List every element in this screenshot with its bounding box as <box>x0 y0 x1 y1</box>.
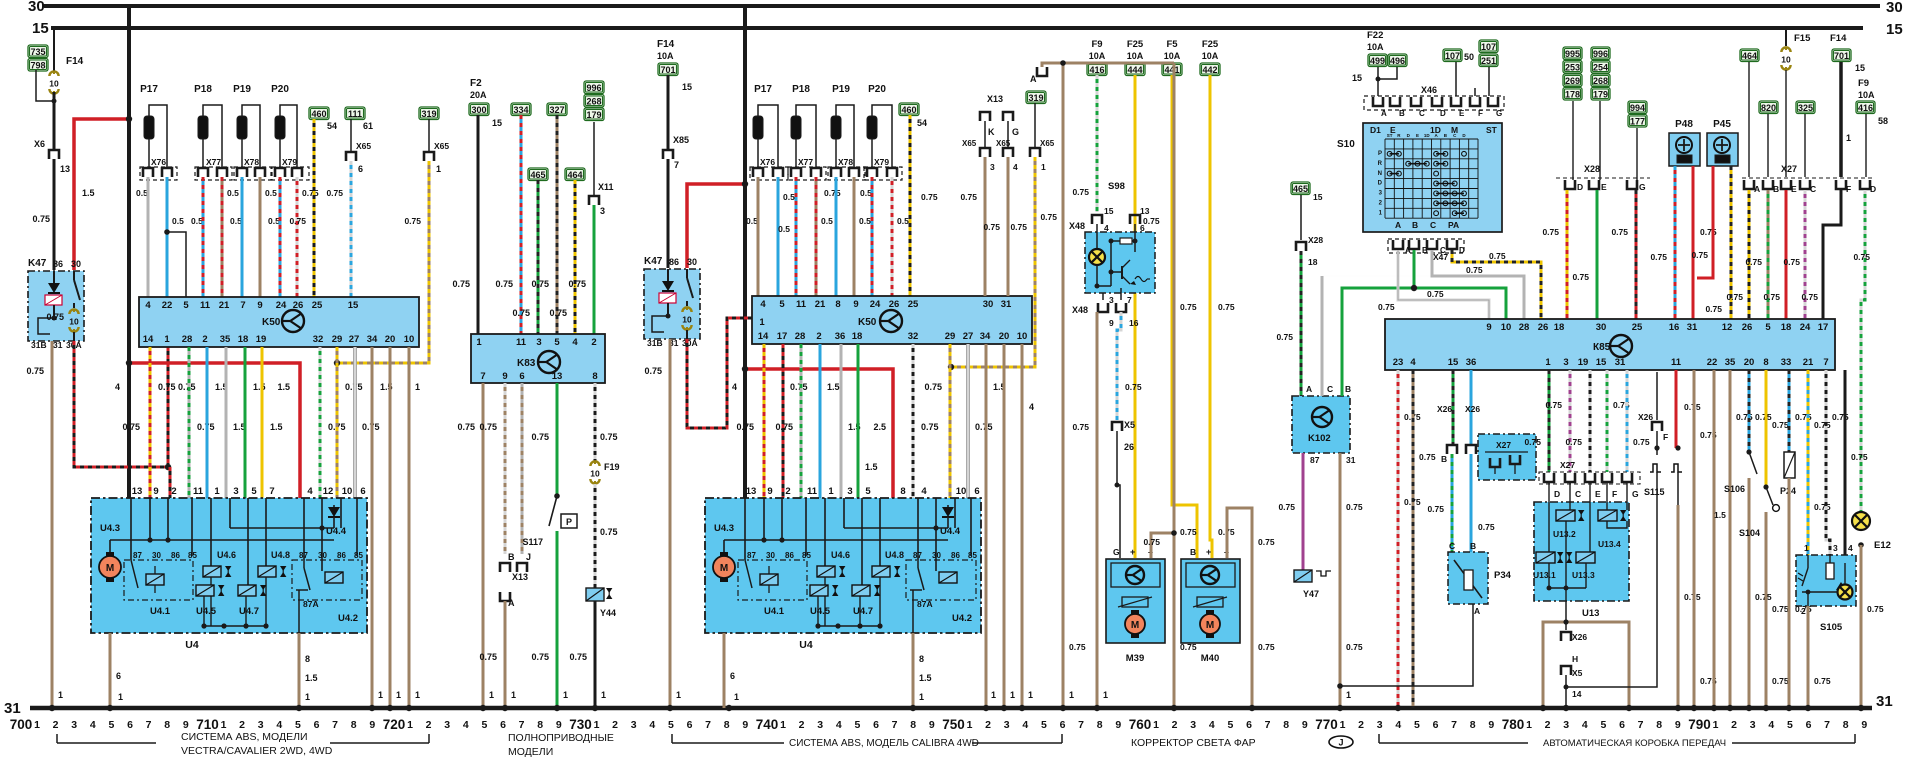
svg-text:1: 1 <box>436 164 441 174</box>
svg-text:4: 4 <box>145 300 151 311</box>
wire K50-2 pin14 red/yellow to U4-2 pin9 <box>763 344 766 498</box>
svg-text:U4: U4 <box>185 639 199 651</box>
svg-text:M: M <box>106 563 114 574</box>
green label 460 (Calibra) <box>899 103 919 116</box>
svg-text:M40: M40 <box>1201 653 1219 664</box>
svg-text:D: D <box>1378 181 1383 187</box>
svg-text:17: 17 <box>777 331 788 342</box>
svg-text:1.5: 1.5 <box>865 462 878 472</box>
svg-text:21: 21 <box>219 300 230 311</box>
svg-text:86: 86 <box>171 551 180 560</box>
wire K50 pin32 green/white to U4 pin12 <box>319 347 322 498</box>
svg-text:1: 1 <box>164 334 170 345</box>
svg-text:464: 464 <box>1742 51 1757 61</box>
svg-text:2: 2 <box>202 334 207 345</box>
svg-text:4: 4 <box>115 382 120 392</box>
svg-text:10: 10 <box>1501 322 1512 333</box>
svg-text:1: 1 <box>214 486 220 497</box>
svg-text:7: 7 <box>146 719 152 731</box>
svg-text:31: 31 <box>1001 299 1012 310</box>
wire K85 pin15b green/white to X27 F <box>1606 370 1609 472</box>
svg-text:H: H <box>1572 654 1578 664</box>
wire 701 to X85 <box>667 75 670 150</box>
svg-text:1: 1 <box>305 692 310 702</box>
svg-text:441: 441 <box>1164 65 1179 75</box>
svg-text:M39: M39 <box>1126 653 1144 664</box>
U4 bottom bus <box>818 625 880 627</box>
wire 319 to X65 <box>1034 103 1036 148</box>
svg-text:18: 18 <box>852 331 863 342</box>
green labels 996 268 179 <box>584 81 604 94</box>
green labels 735 798 <box>28 45 48 58</box>
svg-text:18: 18 <box>1781 322 1792 333</box>
svg-text:C: C <box>1327 384 1333 394</box>
svg-text:18: 18 <box>238 334 249 345</box>
svg-text:9: 9 <box>1115 719 1121 731</box>
svg-text:9: 9 <box>1486 322 1491 333</box>
svg-text:0.75: 0.75 <box>122 422 140 432</box>
wire X78 blue to K50 pin7 <box>241 177 244 297</box>
wire X27 F black to K85 pin17 <box>1823 190 1841 319</box>
wire 465 green/black to K83 pin3 <box>537 180 540 334</box>
section bracket ABS Calibra <box>671 734 673 743</box>
svg-text:E: E <box>1416 133 1419 138</box>
svg-text:0.75: 0.75 <box>1276 332 1293 342</box>
svg-text:700: 700 <box>10 717 33 732</box>
svg-text:1: 1 <box>1153 719 1159 731</box>
svg-text:760: 760 <box>1129 717 1152 732</box>
svg-text:1: 1 <box>780 719 786 731</box>
svg-text:25: 25 <box>908 299 919 310</box>
wire X79 red/white to K50 pin26 <box>296 177 299 297</box>
svg-text:6: 6 <box>360 486 365 497</box>
svg-text:87: 87 <box>1310 455 1320 465</box>
svg-text:2: 2 <box>239 719 245 731</box>
svg-text:7: 7 <box>705 719 711 731</box>
section bracket ABS Vectra <box>56 734 58 743</box>
svg-text:780: 780 <box>1502 717 1525 732</box>
svg-text:K83: K83 <box>517 358 536 369</box>
svg-text:F25: F25 <box>1127 39 1144 50</box>
svg-text:3: 3 <box>1563 357 1568 368</box>
svg-text:254: 254 <box>1593 63 1608 73</box>
wire K102 87 violet to Y47 <box>1302 453 1305 570</box>
svg-text:1.5: 1.5 <box>1714 510 1726 520</box>
svg-text:0.75: 0.75 <box>1489 251 1506 261</box>
svg-text:P34: P34 <box>1494 570 1512 581</box>
relay K83 <box>471 334 605 383</box>
svg-text:G: G <box>1639 182 1646 192</box>
svg-text:8: 8 <box>351 719 357 731</box>
svg-text:X65: X65 <box>1040 139 1055 148</box>
svg-text:9: 9 <box>767 486 772 497</box>
svg-text:E: E <box>1791 184 1797 194</box>
svg-text:13: 13 <box>746 486 757 497</box>
valve relay U4.5 <box>810 585 828 596</box>
control unit K85 <box>1385 319 1835 370</box>
svg-text:8: 8 <box>305 654 310 664</box>
wire 334 blue/red to K83 pin11 <box>520 115 523 334</box>
svg-text:0.75: 0.75 <box>1705 304 1722 314</box>
wire feed from 30 to U4 pin13 (left) <box>127 6 131 498</box>
wire K47 31B to ground 31 <box>51 341 54 708</box>
svg-text:2: 2 <box>426 719 432 731</box>
svg-text:1: 1 <box>828 486 834 497</box>
svg-text:P20: P20 <box>868 84 886 95</box>
svg-text:F15: F15 <box>1794 33 1811 44</box>
wire K50 pin18 green to U4 pin5 <box>244 347 247 498</box>
svg-text:31B: 31B <box>31 340 47 350</box>
svg-text:1.5: 1.5 <box>82 188 95 198</box>
green label 334 <box>511 103 531 116</box>
svg-text:0.75: 0.75 <box>1755 412 1772 422</box>
svg-text:9: 9 <box>556 719 562 731</box>
svg-text:1: 1 <box>919 692 924 702</box>
svg-text:+: + <box>1206 547 1211 557</box>
svg-text:0.75: 0.75 <box>404 216 421 226</box>
svg-text:8: 8 <box>910 719 916 731</box>
wire K50-2 pin27 white to U4-2 pin6 <box>967 344 970 498</box>
wire S10 A white to K85 pin9 <box>1398 250 1489 319</box>
svg-text:4: 4 <box>1768 719 1774 731</box>
svg-text:0.75: 0.75 <box>1478 522 1495 532</box>
svg-text:15: 15 <box>1448 357 1459 368</box>
svg-text:X5: X5 <box>1124 420 1135 430</box>
wire X28 D red/yellow to K85 <box>1566 190 1569 319</box>
svg-text:K102: K102 <box>1308 433 1331 444</box>
svg-text:X11: X11 <box>598 182 614 192</box>
svg-text:U4.3: U4.3 <box>714 523 734 534</box>
green label 107 50 <box>1443 49 1462 62</box>
svg-text:5: 5 <box>1227 719 1233 731</box>
svg-text:P: P <box>1378 151 1382 157</box>
wire K50-2 pin2 blue to U4-2 pin1 <box>819 344 822 498</box>
junction box X27 small <box>1478 434 1536 480</box>
green label 701 <box>658 63 678 76</box>
svg-text:1: 1 <box>118 692 123 702</box>
svg-text:31: 31 <box>1687 322 1698 333</box>
svg-text:16: 16 <box>1129 318 1139 328</box>
svg-text:7: 7 <box>1451 719 1457 731</box>
svg-text:0.75: 0.75 <box>921 192 938 202</box>
svg-text:1: 1 <box>1041 162 1046 172</box>
svg-text:9: 9 <box>1109 318 1114 328</box>
svg-text:0.75: 0.75 <box>158 382 176 392</box>
svg-text:МОДЕЛИ: МОДЕЛИ <box>508 746 553 758</box>
svg-text:0.75: 0.75 <box>1143 216 1160 226</box>
svg-text:1.5: 1.5 <box>277 382 290 392</box>
wire K85 pin1 green/black to X27 D <box>1548 370 1551 472</box>
relay U13.2 <box>1556 510 1575 521</box>
wire K50-2 pin36 grey to U4-2 pin3 <box>840 344 843 498</box>
wire S10 D yellow/black to K85 pin26 <box>1452 250 1541 319</box>
svg-text:U13.4: U13.4 <box>1598 539 1621 549</box>
svg-text:15: 15 <box>32 20 49 37</box>
svg-text:X46: X46 <box>1421 85 1437 95</box>
svg-text:17: 17 <box>1818 322 1829 333</box>
svg-text:X27: X27 <box>1496 440 1511 450</box>
ABS hydraulic unit U4 box <box>91 498 367 633</box>
bus line 30 (top) <box>44 4 1880 8</box>
svg-text:8: 8 <box>537 719 543 731</box>
svg-text:3: 3 <box>71 719 77 731</box>
svg-text:4: 4 <box>1848 543 1853 553</box>
wire X28 G red/black to K85 pin25 <box>1635 190 1638 319</box>
wire S117 to 31 <box>556 531 559 708</box>
wire X6 to K47 pin86 <box>53 159 56 270</box>
svg-text:1.5: 1.5 <box>827 382 840 392</box>
svg-text:6: 6 <box>519 371 524 382</box>
svg-text:X26: X26 <box>1437 404 1452 414</box>
svg-text:7: 7 <box>1265 719 1271 731</box>
wire X79 blue/red to K50 pin24 <box>279 177 282 297</box>
svg-text:9: 9 <box>257 300 262 311</box>
svg-text:0.75: 0.75 <box>1611 227 1628 237</box>
valve Y44 <box>586 588 604 601</box>
wire 798 to fuse output <box>36 70 52 101</box>
svg-text:D: D <box>1440 109 1446 118</box>
svg-text:6: 6 <box>974 486 979 497</box>
svg-text:1: 1 <box>601 690 606 700</box>
svg-text:319: 319 <box>1028 93 1043 103</box>
svg-text:0.75: 0.75 <box>1072 187 1089 197</box>
wire X65 blue/white to K50 pin15 <box>350 161 353 297</box>
svg-text:1: 1 <box>1010 690 1015 700</box>
svg-text:D: D <box>1870 184 1876 194</box>
svg-text:G: G <box>1632 489 1639 499</box>
valve relay U4.7 <box>238 585 256 596</box>
svg-text:15: 15 <box>682 82 692 92</box>
svg-text:U13.3: U13.3 <box>1572 570 1595 580</box>
svg-text:0.75: 0.75 <box>495 279 513 289</box>
svg-text:416: 416 <box>1858 103 1873 113</box>
svg-text:6: 6 <box>1246 719 1252 731</box>
svg-text:416: 416 <box>1089 65 1104 75</box>
U4 bottom bus <box>204 625 266 627</box>
svg-text:0.75: 0.75 <box>1466 265 1483 275</box>
svg-text:8: 8 <box>1097 719 1103 731</box>
svg-text:0.75: 0.75 <box>1040 212 1057 222</box>
svg-text:A: A <box>1381 109 1387 118</box>
svg-text:E: E <box>1459 109 1465 118</box>
svg-text:P18: P18 <box>194 84 212 95</box>
svg-text:5: 5 <box>251 486 257 497</box>
valve relay U4.5 <box>196 585 214 596</box>
svg-text:5: 5 <box>295 719 301 731</box>
svg-text:32: 32 <box>908 331 919 342</box>
svg-text:7: 7 <box>1078 719 1084 731</box>
svg-text:0.75: 0.75 <box>568 279 586 289</box>
svg-text:10A: 10A <box>1164 51 1181 61</box>
svg-text:19: 19 <box>256 334 267 345</box>
svg-text:X48: X48 <box>1072 305 1088 315</box>
svg-text:2: 2 <box>1801 606 1806 616</box>
svg-text:319: 319 <box>421 109 436 119</box>
wire X77 blue/red to K50 pin11 <box>202 177 205 297</box>
svg-text:1: 1 <box>378 690 383 700</box>
svg-text:31: 31 <box>1615 357 1626 368</box>
svg-text:8: 8 <box>592 371 597 382</box>
svg-text:1: 1 <box>594 719 600 731</box>
wire K85 pin3 violet/white to X27 C <box>1569 370 1572 472</box>
svg-text:K47: K47 <box>28 258 47 269</box>
lamp E12 <box>1852 512 1870 530</box>
svg-text:8: 8 <box>1656 719 1662 731</box>
svg-text:2: 2 <box>816 331 821 342</box>
svg-text:F19: F19 <box>604 462 620 472</box>
svg-text:86: 86 <box>53 259 63 269</box>
svg-text:U4.5: U4.5 <box>810 606 831 617</box>
svg-text:P45: P45 <box>1713 119 1731 130</box>
svg-text:B: B <box>508 552 515 562</box>
wire U13 bottom to X26 H <box>1565 601 1567 630</box>
wire F9 green/white to X48 <box>1096 75 1099 212</box>
wire brown to K50-2 pin4 <box>757 177 760 296</box>
svg-text:107: 107 <box>1481 42 1496 52</box>
svg-text:798: 798 <box>30 61 45 71</box>
svg-text:0.75: 0.75 <box>924 382 942 392</box>
svg-text:2: 2 <box>799 719 805 731</box>
switch S115 double <box>1650 464 1661 472</box>
wire K50-2 pin34 brown to 31 <box>985 344 988 708</box>
svg-text:701: 701 <box>660 65 675 75</box>
svg-text:0.75: 0.75 <box>1524 437 1541 447</box>
svg-text:0.75: 0.75 <box>452 279 470 289</box>
svg-text:P: P <box>566 517 572 527</box>
svg-text:27: 27 <box>963 331 974 342</box>
svg-text:8: 8 <box>919 654 924 664</box>
svg-text:701: 701 <box>1834 51 1849 61</box>
green label 325 <box>1796 101 1815 114</box>
wire K50-2 pin20 brown to 31 <box>1003 344 1006 708</box>
svg-text:S106: S106 <box>1724 484 1745 494</box>
svg-text:25: 25 <box>312 300 323 311</box>
svg-text:27: 27 <box>349 334 360 345</box>
svg-text:8: 8 <box>1843 719 1849 731</box>
svg-text:86: 86 <box>669 257 679 267</box>
svg-text:0.75: 0.75 <box>1853 252 1870 262</box>
wire K85 pin19 black/white to X27 E <box>1589 370 1592 472</box>
svg-text:10A: 10A <box>1089 51 1106 61</box>
connector S10 bottom <box>1388 239 1464 253</box>
svg-text:0.5: 0.5 <box>230 216 242 226</box>
svg-text:9: 9 <box>742 719 748 731</box>
svg-text:4: 4 <box>732 382 737 392</box>
U4 internal bus <box>724 539 948 541</box>
wire S106 brown to 31 <box>1748 478 1751 708</box>
svg-text:U4: U4 <box>799 639 813 651</box>
svg-text:5: 5 <box>854 719 860 731</box>
wire K50 pin20 brown to 31 <box>389 347 392 708</box>
svg-text:9: 9 <box>183 719 189 731</box>
wire K85 pin15 green/black to X26 B <box>1452 370 1455 445</box>
svg-text:X77: X77 <box>798 157 813 167</box>
svg-text:30: 30 <box>932 551 941 560</box>
wire K83 pin6 brown/grey to X13 <box>521 383 524 554</box>
svg-text:30: 30 <box>152 551 161 560</box>
svg-text:464: 464 <box>567 170 582 180</box>
wire K85 pin31b blue/white to X27 G <box>1626 370 1629 472</box>
green labels 994 177 <box>1628 101 1647 114</box>
svg-text:J: J <box>526 552 531 562</box>
wire X11 green to K83 pin2 <box>593 205 596 334</box>
svg-text:5: 5 <box>1765 322 1771 333</box>
wire brown X65 to K50-2 pin30 <box>984 157 987 296</box>
svg-text:0.75: 0.75 <box>1419 452 1436 462</box>
wire corrector brown feed right <box>1173 63 1176 708</box>
svg-text:1: 1 <box>1713 719 1719 731</box>
svg-text:7: 7 <box>1638 719 1644 731</box>
wire K85 pin11 red to S115 <box>1675 370 1678 448</box>
svg-text:6: 6 <box>358 164 363 174</box>
wire X76 blue to K50 pin22 <box>166 177 169 297</box>
svg-text:F14: F14 <box>1830 33 1847 44</box>
svg-text:1: 1 <box>1846 133 1851 143</box>
svg-text:179: 179 <box>586 110 601 120</box>
svg-text:B: B <box>1422 246 1428 255</box>
svg-text:0.75: 0.75 <box>736 422 754 432</box>
wire F19 to Y44 <box>594 484 597 588</box>
svg-text:85: 85 <box>354 551 363 560</box>
svg-text:6: 6 <box>500 719 506 731</box>
wire Y44 to 31 <box>594 601 597 708</box>
svg-text:0.75: 0.75 <box>644 366 662 376</box>
svg-text:2: 2 <box>171 486 176 497</box>
svg-text:0.5: 0.5 <box>172 216 184 226</box>
bus line 31 (bottom) <box>30 706 1872 711</box>
svg-text:0.75: 0.75 <box>1545 400 1562 410</box>
relay K50 <box>139 297 419 347</box>
green label 300 <box>469 103 489 116</box>
green label 496 <box>1388 54 1407 67</box>
svg-text:B: B <box>1441 454 1447 464</box>
svg-text:87: 87 <box>133 551 142 560</box>
svg-text:1.5: 1.5 <box>305 673 318 683</box>
svg-text:1: 1 <box>991 690 996 700</box>
svg-text:1: 1 <box>676 690 681 700</box>
svg-text:X85: X85 <box>673 135 689 145</box>
wire K85 pin8 yellow to S104 <box>1765 370 1768 487</box>
svg-text:0.5: 0.5 <box>227 188 239 198</box>
svg-text:10A: 10A <box>1202 51 1219 61</box>
wire K83 pin7 brown to 31 <box>482 383 485 708</box>
svg-text:U4.8: U4.8 <box>885 550 904 560</box>
svg-text:0.75: 0.75 <box>549 308 567 318</box>
svg-text:10A: 10A <box>1858 90 1875 100</box>
svg-text:5: 5 <box>668 719 674 731</box>
wire K85 pin22 brown to 31 <box>1713 370 1716 708</box>
svg-text:0.75: 0.75 <box>600 432 618 442</box>
svg-text:87: 87 <box>747 551 756 560</box>
svg-text:0.75: 0.75 <box>1814 420 1831 430</box>
wire K83 pin8 black/white to F19 <box>594 383 597 462</box>
svg-text:F9: F9 <box>1858 78 1869 89</box>
svg-text:1: 1 <box>967 719 973 731</box>
green label 111 <box>345 107 365 120</box>
svg-text:X6: X6 <box>34 139 45 149</box>
wire K85 pin20 blue/black to S106 <box>1748 370 1751 452</box>
wire X77 brown/red to K50 pin21 <box>221 177 224 297</box>
svg-text:X26: X26 <box>1465 404 1480 414</box>
svg-text:1: 1 <box>734 692 739 702</box>
svg-text:U4.1: U4.1 <box>150 606 171 617</box>
svg-text:0.75: 0.75 <box>1258 642 1275 652</box>
svg-text:28: 28 <box>182 334 193 345</box>
green label 460 <box>309 107 329 120</box>
wire K85 brown to 31 a <box>1693 370 1696 708</box>
svg-text:9: 9 <box>502 371 507 382</box>
svg-text:0.5: 0.5 <box>778 224 790 234</box>
